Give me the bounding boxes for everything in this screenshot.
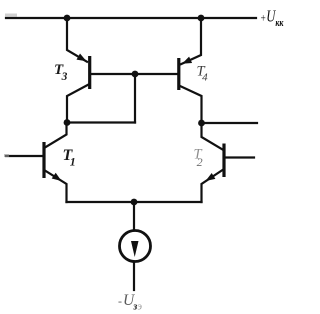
- scan smudge left input start: [4, 154, 9, 157]
- wire T4 collector lead: [180, 86, 202, 123]
- wire top supply rail: [6, 17, 256, 19]
- wire T3 collector lead: [67, 85, 89, 123]
- transistor T2 base bar: [222, 144, 225, 178]
- svg-text:+Uкк: +Uкк: [260, 7, 284, 30]
- node junction dot top left: [64, 15, 71, 22]
- wire T3 emitter lead: [67, 18, 87, 62]
- wire output stub right top: [202, 122, 258, 124]
- wire T1 emitter lead: [45, 171, 67, 203]
- svg-text:-Uзэ: -Uзэ: [118, 292, 142, 313]
- wire diode-connection vertical: [134, 74, 136, 123]
- node T2/T4 collector dot: [198, 120, 205, 127]
- transistor T1 emitter arrow (NPN): [52, 173, 62, 181]
- svg-text:T3: T3: [54, 62, 68, 83]
- scan smudge left end of rail: [5, 14, 17, 18]
- wire T4 emitter lead: [181, 18, 201, 64]
- svg-text:T4: T4: [197, 64, 209, 84]
- wire diode-connection horizontal: [67, 121, 135, 123]
- transistor T3 emitter arrow (PNP): [77, 54, 87, 62]
- node T1/T3 collector dot: [64, 119, 71, 126]
- wire T2 collector lead: [202, 123, 223, 150]
- wire current source top lead: [133, 202, 135, 231]
- svg-text:T1: T1: [63, 147, 76, 169]
- current source I1 circle: [120, 231, 151, 262]
- wire base line T3-T4: [90, 73, 178, 75]
- transistor T3 base bar: [88, 56, 91, 89]
- wire T2 emitter lead: [202, 170, 223, 202]
- wire common emitter rail: [67, 201, 202, 203]
- node base junction dot: [132, 71, 139, 78]
- wire current source bottom lead: [133, 262, 135, 291]
- transistor T2 emitter arrow (NPN): [206, 173, 216, 181]
- current source I1 arrow: [131, 241, 139, 257]
- wire T2 base stub: [225, 156, 254, 158]
- node junction dot top right: [198, 15, 205, 22]
- wire T1 base input: [6, 155, 43, 157]
- svg-text:T2: T2: [194, 147, 203, 170]
- transistor T4 emitter arrow (PNP): [182, 57, 192, 64]
- node emitter rail dot: [131, 199, 138, 206]
- transistor T4 base bar: [177, 58, 180, 90]
- transistor T1 base bar: [42, 142, 45, 178]
- wire T1 collector lead: [45, 123, 67, 148]
